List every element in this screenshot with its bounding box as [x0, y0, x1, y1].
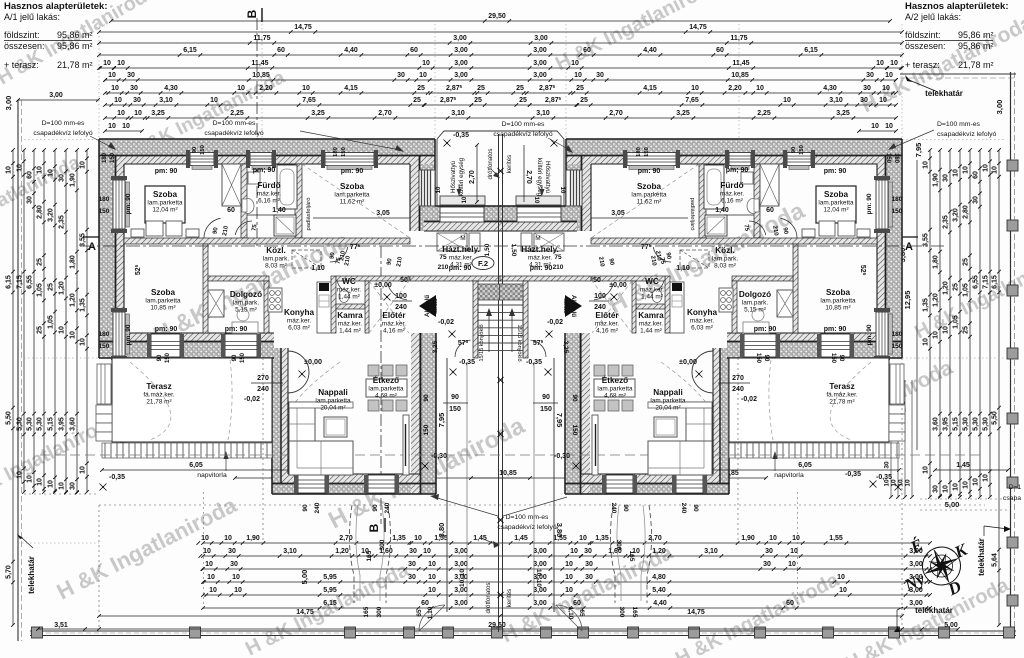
- property boundary telekhatar lines and fence posts: [17, 100, 19, 641]
- svg-text:D=100 mm-es: D=100 mm-es: [506, 514, 549, 521]
- svg-text:30: 30: [765, 548, 773, 555]
- svg-text:14,75: 14,75: [296, 609, 314, 616]
- svg-text:1,80: 1,80: [933, 255, 940, 269]
- svg-text:pm; 90: pm; 90: [253, 167, 276, 174]
- svg-text:máz.ker.: máz.ker.: [382, 321, 406, 328]
- svg-text:2,35: 2,35: [943, 215, 950, 229]
- svg-text:napvitorla: napvitorla: [197, 472, 227, 479]
- svg-text:10: 10: [790, 548, 798, 555]
- svg-text:kerítés: kerítés: [506, 155, 513, 174]
- svg-text:12,04 m²: 12,04 m²: [823, 207, 848, 214]
- svg-text:10: 10: [963, 481, 970, 489]
- svg-text:1,90: 1,90: [933, 173, 940, 187]
- svg-text:1,10: 1,10: [311, 265, 325, 272]
- svg-text:A: A: [88, 241, 96, 253]
- svg-text:1,35: 1,35: [923, 298, 930, 312]
- svg-text:2,20: 2,20: [728, 85, 742, 92]
- svg-text:Házt.hely.: Házt.hely.: [521, 245, 559, 254]
- svg-text:4,68 m²: 4,68 m²: [604, 393, 626, 400]
- svg-text:4,40: 4,40: [344, 47, 358, 54]
- svg-text:M: M: [535, 235, 540, 242]
- svg-text:90: 90: [157, 354, 163, 361]
- svg-text:lam.parketta: lam.parketta: [147, 200, 183, 207]
- svg-text:25: 25: [48, 283, 55, 291]
- svg-text:máz.ker.: máz.ker.: [287, 318, 311, 325]
- svg-text:4,30: 4,30: [164, 85, 178, 92]
- svg-text:pm: 90: pm: 90: [125, 193, 132, 214]
- svg-text:3,25: 3,25: [432, 340, 439, 353]
- svg-text:Hasznos alapterületek:: Hasznos alapterületek:: [4, 1, 107, 12]
- svg-text:pm: 90: pm: 90: [155, 326, 178, 333]
- svg-text:máz.ker.: máz.ker.: [639, 321, 663, 328]
- svg-text:150: 150: [571, 425, 578, 436]
- svg-text:3,55: 3,55: [80, 233, 87, 247]
- svg-text:Terasz: Terasz: [146, 382, 171, 391]
- svg-text:150: 150: [892, 343, 903, 350]
- svg-text:pm: 90: pm: 90: [125, 324, 132, 345]
- svg-text:150: 150: [885, 153, 891, 164]
- svg-text:7,15: 7,15: [983, 275, 990, 289]
- svg-text:3,00: 3,00: [4, 96, 13, 111]
- svg-text:10: 10: [565, 561, 573, 568]
- svg-text:összesen:: összesen:: [905, 41, 946, 51]
- svg-text:10: 10: [103, 60, 111, 67]
- svg-text:1,90: 1,90: [70, 173, 77, 187]
- svg-text:1,10: 1,10: [567, 607, 574, 620]
- svg-text:30: 30: [130, 85, 138, 92]
- svg-text:90: 90: [571, 394, 578, 402]
- svg-text:10: 10: [122, 123, 130, 130]
- svg-text:10: 10: [885, 72, 893, 79]
- svg-text:2,80: 2,80: [37, 205, 44, 219]
- svg-text:máz.ker.: máz.ker.: [640, 287, 664, 294]
- entry porch with steps and A/1-A/2 markers: [478, 284, 502, 300]
- svg-text:165: 165: [628, 551, 635, 562]
- svg-text:50: 50: [400, 277, 408, 284]
- svg-text:-0,35: -0,35: [453, 132, 469, 139]
- svg-text:150: 150: [449, 406, 461, 413]
- svg-text:pm: 90: pm: 90: [449, 265, 472, 272]
- svg-text:3,10: 3,10: [536, 110, 550, 117]
- compass rose E-K-D-Ny: [916, 541, 966, 591]
- svg-text:50: 50: [593, 277, 601, 284]
- svg-text:1,45: 1,45: [514, 535, 528, 542]
- svg-text:10: 10: [48, 480, 55, 488]
- svg-text:Szoba: Szoba: [151, 288, 176, 297]
- svg-text:21,78 m²: 21,78 m²: [958, 60, 994, 70]
- svg-text:10: 10: [792, 535, 800, 542]
- svg-text:3,00: 3,00: [533, 72, 547, 79]
- svg-text:240: 240: [594, 304, 606, 311]
- svg-text:10,85 m²: 10,85 m²: [825, 305, 850, 312]
- svg-text:telekhatár: telekhatár: [977, 538, 986, 576]
- svg-text:180: 180: [99, 331, 110, 338]
- svg-text:180: 180: [99, 196, 110, 203]
- Nappali sofa, table, TV board; Etkezo table and chairs: [289, 402, 315, 475]
- svg-text:máz.ker.: máz.ker.: [690, 318, 714, 325]
- svg-text:máz.ker.: máz.ker.: [449, 255, 473, 262]
- svg-text:10: 10: [565, 587, 573, 594]
- svg-text:-0,35: -0,35: [876, 474, 892, 481]
- svg-text:3,00: 3,00: [454, 548, 468, 555]
- svg-text:30: 30: [27, 196, 34, 204]
- garden walkways and gates: [349, 505, 390, 603]
- wall edge lines: [99, 155, 435, 157]
- interior partition walls: [241, 164, 247, 238]
- svg-text:90: 90: [372, 504, 379, 512]
- svg-text:60: 60: [583, 47, 591, 54]
- svg-text:10: 10: [80, 161, 87, 169]
- svg-text:10,,10: 10,,10: [459, 569, 466, 587]
- svg-text:lam.parketta: lam.parketta: [145, 298, 181, 305]
- svg-text:lam.park.: lam.park.: [742, 300, 769, 307]
- svg-text:Szoba: Szoba: [824, 190, 849, 199]
- svg-text:10: 10: [237, 85, 245, 92]
- svg-text:10: 10: [992, 166, 999, 174]
- svg-text:1,44 m²: 1,44 m²: [339, 328, 361, 335]
- svg-text:90: 90: [692, 504, 699, 512]
- svg-text:1,40: 1,40: [272, 207, 286, 214]
- svg-text:5,15 m²: 5,15 m²: [744, 307, 766, 314]
- svg-text:3,51: 3,51: [54, 622, 68, 629]
- svg-text:12,95: 12,95: [903, 291, 912, 310]
- svg-text:150: 150: [644, 147, 650, 157]
- svg-text:3,25: 3,25: [311, 110, 325, 117]
- svg-text:3,00: 3,00: [454, 72, 468, 79]
- Konyha stove, counter, fridge: [268, 288, 282, 312]
- svg-text:150: 150: [200, 145, 206, 155]
- svg-text:6,55: 6,55: [973, 275, 980, 289]
- svg-text:11,62 m²: 11,62 m²: [340, 199, 365, 206]
- svg-text:telekhatár: telekhatár: [925, 89, 963, 98]
- svg-text:150: 150: [341, 147, 347, 157]
- svg-text:90: 90: [542, 394, 550, 401]
- svg-text:29,50: 29,50: [488, 13, 506, 20]
- svg-text:5,15: 5,15: [48, 417, 55, 431]
- svg-text:1,45: 1,45: [473, 535, 487, 542]
- svg-text:6,03 m²: 6,03 m²: [288, 325, 310, 332]
- svg-text:30: 30: [397, 72, 405, 79]
- svg-text:30: 30: [70, 482, 77, 490]
- svg-text:150: 150: [423, 424, 430, 435]
- svg-text:10,,10: 10,,10: [535, 569, 542, 587]
- svg-text:lam.park.: lam.park.: [233, 300, 260, 307]
- svg-text:5,95: 5,95: [323, 574, 337, 581]
- svg-text:1,35: 1,35: [595, 535, 609, 542]
- svg-text:25: 25: [516, 85, 524, 92]
- svg-text:10,85: 10,85: [731, 72, 749, 79]
- svg-text:3,20: 3,20: [48, 208, 55, 222]
- svg-text:10: 10: [876, 60, 884, 67]
- svg-text:3,00: 3,00: [533, 47, 547, 54]
- svg-text:±0,00: ±0,00: [374, 282, 392, 289]
- svg-text:10: 10: [953, 483, 960, 491]
- svg-text:Szoba: Szoba: [340, 182, 365, 191]
- svg-text:180: 180: [102, 152, 108, 163]
- svg-text:D=100 mm-es: D=100 mm-es: [213, 120, 256, 127]
- svg-text:10: 10: [6, 166, 13, 174]
- svg-text:1,80: 1,80: [70, 255, 77, 269]
- svg-text:10: 10: [27, 475, 34, 483]
- svg-text:3,25: 3,25: [676, 110, 690, 117]
- svg-text:30: 30: [884, 461, 891, 469]
- svg-text:4,40: 4,40: [653, 600, 667, 607]
- svg-text:1,40: 1,40: [715, 207, 729, 214]
- svg-text:2,25: 2,25: [757, 110, 771, 117]
- svg-text:5,30: 5,30: [973, 417, 980, 431]
- svg-text:10: 10: [890, 60, 898, 67]
- svg-text:300: 300: [618, 607, 625, 618]
- svg-text:3,10: 3,10: [829, 97, 843, 104]
- svg-text:10: 10: [943, 326, 950, 334]
- svg-text:10: 10: [963, 166, 970, 174]
- svg-text:Nappali: Nappali: [653, 388, 683, 397]
- svg-text:90: 90: [838, 355, 844, 362]
- svg-text:lakás: lakás: [562, 298, 569, 314]
- svg-text:25: 25: [963, 258, 970, 266]
- svg-text:10: 10: [37, 478, 44, 486]
- svg-text:165: 165: [363, 606, 370, 617]
- svg-text:10: 10: [983, 474, 990, 482]
- svg-text:drótfonatos: drótfonatos: [487, 149, 494, 180]
- svg-text:10: 10: [565, 574, 573, 581]
- svg-text:65: 65: [578, 609, 585, 617]
- svg-text:10: 10: [108, 123, 116, 130]
- svg-text:20,04 m²: 20,04 m²: [655, 405, 680, 412]
- svg-text:lam.parketta: lam.parketta: [820, 298, 856, 305]
- svg-text:pm: 90: pm: 90: [866, 193, 873, 214]
- svg-text:±0,00: ±0,00: [679, 357, 697, 366]
- svg-text:3,00: 3,00: [533, 60, 547, 67]
- bed in Szoba 12,04: [145, 186, 185, 223]
- svg-text:1,35: 1,35: [392, 535, 406, 542]
- svg-text:30: 30: [230, 561, 238, 568]
- svg-text:5,95: 5,95: [323, 587, 337, 594]
- svg-text:3,10: 3,10: [704, 548, 718, 555]
- svg-text:30: 30: [866, 72, 874, 79]
- svg-text:B: B: [367, 523, 381, 532]
- svg-text:10: 10: [210, 97, 218, 104]
- svg-text:lam.parketta: lam.parketta: [631, 192, 667, 199]
- svg-text:150: 150: [540, 406, 552, 413]
- top dimension rows: [111, 20, 890, 22]
- svg-text:10: 10: [428, 587, 436, 594]
- svg-text:150: 150: [165, 352, 171, 363]
- svg-text:3,60: 3,60: [70, 417, 77, 431]
- svg-text:30: 30: [860, 97, 868, 104]
- svg-text:1,44 m²: 1,44 m²: [338, 294, 360, 301]
- svg-text:10,85: 10,85: [252, 72, 270, 79]
- svg-text:3,00: 3,00: [454, 60, 468, 67]
- svg-text:5,00: 5,00: [945, 500, 960, 509]
- svg-text:A/2 jelű: A/2 jelű: [570, 295, 577, 317]
- svg-text:7,15: 7,15: [17, 275, 24, 289]
- svg-text:máz.ker.: máz.ker.: [528, 255, 552, 262]
- svg-text:2,35: 2,35: [59, 215, 66, 229]
- svg-text:Fürdő: Fürdő: [720, 181, 743, 190]
- Szoba 11,62 annotations: [313, 217, 410, 219]
- svg-text:5,15: 5,15: [953, 417, 960, 431]
- svg-text:240: 240: [395, 304, 407, 311]
- svg-text:Hasznos alapterületek:: Hasznos alapterületek:: [905, 1, 1008, 12]
- svg-text:30: 30: [408, 574, 416, 581]
- svg-text:lam.parketta: lam.parketta: [334, 192, 370, 199]
- svg-text:Fürdő: Fürdő: [257, 181, 280, 190]
- svg-text:4,16 m²: 4,16 m²: [383, 328, 405, 335]
- svg-text:Kamra: Kamra: [638, 311, 664, 320]
- svg-text:telekhatár: telekhatár: [27, 556, 36, 594]
- svg-text:60: 60: [716, 47, 724, 54]
- svg-text:D=100 mm-es: D=100 mm-es: [42, 120, 85, 127]
- svg-text:máz.ker.: máz.ker.: [338, 321, 362, 328]
- svg-text:3,00: 3,00: [533, 548, 547, 555]
- svg-text:10: 10: [302, 85, 310, 92]
- svg-text:pm: 90: pm: 90: [225, 326, 248, 333]
- svg-text:20,04 m²: 20,04 m²: [320, 405, 345, 412]
- svg-text:máz.ker.: máz.ker.: [720, 191, 744, 198]
- svg-text:10: 10: [905, 479, 912, 487]
- svg-text:1,10: 1,10: [676, 265, 690, 272]
- svg-text:pm; 90: pm; 90: [726, 167, 749, 174]
- svg-text:3,00: 3,00: [454, 561, 468, 568]
- svg-text:10: 10: [48, 169, 55, 177]
- svg-text:95,86 m²: 95,86 m²: [958, 30, 994, 40]
- svg-text:földszint:: földszint:: [4, 30, 40, 40]
- svg-text:Étkező: Étkező: [373, 375, 399, 385]
- svg-text:10: 10: [579, 535, 587, 542]
- svg-text:4,80: 4,80: [652, 574, 666, 581]
- svg-text:máz.ker.: máz.ker.: [257, 191, 281, 198]
- svg-text:25: 25: [37, 326, 44, 334]
- svg-text:25: 25: [474, 97, 482, 104]
- svg-text:30: 30: [973, 196, 980, 204]
- svg-text:30: 30: [943, 174, 950, 182]
- svg-text:60: 60: [421, 600, 429, 607]
- svg-text:pm: 90: pm: 90: [638, 168, 661, 175]
- svg-text:3,25: 3,25: [562, 341, 569, 354]
- svg-text:1,20: 1,20: [943, 281, 950, 295]
- svg-text:F.2: F.2: [478, 259, 488, 268]
- svg-text:1,45: 1,45: [956, 462, 970, 469]
- svg-text:4,15: 4,15: [643, 85, 657, 92]
- svg-text:Szoba: Szoba: [153, 190, 178, 199]
- svg-text:90: 90: [763, 355, 769, 362]
- svg-text:30: 30: [409, 548, 417, 555]
- svg-text:3,10: 3,10: [451, 110, 465, 117]
- svg-text:lam.park.: lam.park.: [263, 256, 290, 263]
- left and right dimension columns: [12, 150, 14, 625]
- svg-text:90: 90: [791, 147, 797, 153]
- svg-text:1,50: 1,50: [484, 243, 491, 256]
- svg-text:30: 30: [863, 85, 871, 92]
- svg-text:8,03 m²: 8,03 m²: [714, 263, 736, 270]
- svg-text:Kamra: Kamra: [337, 311, 363, 320]
- svg-text:1,05: 1,05: [963, 283, 970, 297]
- svg-text:10: 10: [111, 85, 119, 92]
- svg-text:10: 10: [837, 574, 845, 581]
- svg-text:±0,00: ±0,00: [609, 282, 627, 289]
- svg-text:lam.parketta: lam.parketta: [315, 398, 351, 405]
- svg-text:240: 240: [610, 503, 617, 514]
- svg-text:1,90: 1,90: [246, 535, 260, 542]
- svg-text:Étkező: Étkező: [602, 375, 628, 385]
- svg-text:90: 90: [622, 504, 629, 512]
- svg-text:30: 30: [596, 72, 604, 79]
- svg-text:6,15: 6,15: [6, 275, 13, 289]
- svg-text:75: 75: [439, 254, 447, 261]
- svg-text:csapadékvíz lefolyó: csapadékvíz lefolyó: [937, 131, 997, 138]
- svg-text:30: 30: [408, 561, 416, 568]
- svg-text:Konyha: Konyha: [687, 308, 717, 317]
- svg-text:pm: 90: pm: 90: [824, 168, 847, 175]
- svg-text:D=100 mm-es: D=100 mm-es: [502, 121, 545, 128]
- svg-text:60: 60: [277, 47, 285, 54]
- svg-text:180: 180: [892, 331, 903, 338]
- svg-text:150: 150: [755, 353, 761, 364]
- svg-text:1,44 m²: 1,44 m²: [641, 294, 663, 301]
- svg-text:2,70: 2,70: [469, 170, 476, 184]
- svg-text:29,50: 29,50: [488, 622, 506, 629]
- svg-text:300: 300: [379, 539, 386, 550]
- courtyard with heat pumps and center fence: [437, 131, 564, 139]
- svg-text:fá.máz.ker.: fá.máz.ker.: [826, 392, 857, 399]
- svg-text:kerítés: kerítés: [506, 589, 513, 608]
- svg-text:5,30: 5,30: [27, 417, 34, 431]
- svg-text:WC: WC: [342, 277, 356, 286]
- svg-text:2,20: 2,20: [259, 85, 273, 92]
- svg-text:3,25: 3,25: [836, 110, 850, 117]
- svg-text:10: 10: [134, 110, 142, 117]
- svg-text:25: 25: [417, 85, 425, 92]
- svg-text:5,64: 5,64: [992, 553, 999, 567]
- svg-text:WC: WC: [645, 277, 659, 286]
- svg-text:10: 10: [533, 197, 539, 204]
- svg-text:Terasz: Terasz: [829, 382, 854, 391]
- svg-text:10: 10: [923, 338, 930, 346]
- svg-text:5,00: 5,00: [944, 622, 958, 629]
- svg-text:2,70: 2,70: [378, 110, 392, 117]
- svg-text:240: 240: [314, 502, 321, 513]
- svg-text:3,00: 3,00: [533, 587, 547, 594]
- svg-text:10: 10: [232, 574, 240, 581]
- svg-text:25: 25: [963, 326, 970, 334]
- svg-text:10,85 m²: 10,85 m²: [150, 305, 175, 312]
- svg-text:csapa: csapa: [1003, 495, 1021, 502]
- svg-text:3,00: 3,00: [454, 600, 468, 607]
- svg-text:D=100 mm-es: D=100 mm-es: [937, 121, 980, 128]
- svg-text:150: 150: [830, 353, 836, 364]
- svg-text:2,25: 2,25: [230, 110, 244, 117]
- svg-text:4,30: 4,30: [823, 85, 837, 92]
- svg-text:pm: 90: pm: 90: [155, 168, 178, 175]
- Szoba 10,85 wardrobe and Dolgozo desk: [208, 290, 224, 317]
- svg-text:8,03 m²: 8,03 m²: [265, 263, 287, 270]
- svg-text:10: 10: [933, 331, 940, 339]
- svg-text:90: 90: [451, 394, 459, 401]
- svg-text:150: 150: [799, 145, 805, 155]
- svg-text:10: 10: [871, 123, 879, 130]
- svg-text:25: 25: [413, 97, 421, 104]
- svg-text:10: 10: [943, 485, 950, 493]
- svg-text:1,20: 1,20: [933, 293, 940, 307]
- svg-text:6,55: 6,55: [27, 275, 34, 289]
- svg-text:12,04 m²: 12,04 m²: [152, 207, 177, 214]
- svg-text:10: 10: [882, 85, 890, 92]
- svg-text:165: 165: [366, 550, 373, 561]
- svg-text:-0,35: -0,35: [845, 471, 861, 478]
- svg-text:Házt.hely.: Házt.hely.: [442, 245, 480, 254]
- svg-text:lam.parketta: lam.parketta: [597, 386, 633, 393]
